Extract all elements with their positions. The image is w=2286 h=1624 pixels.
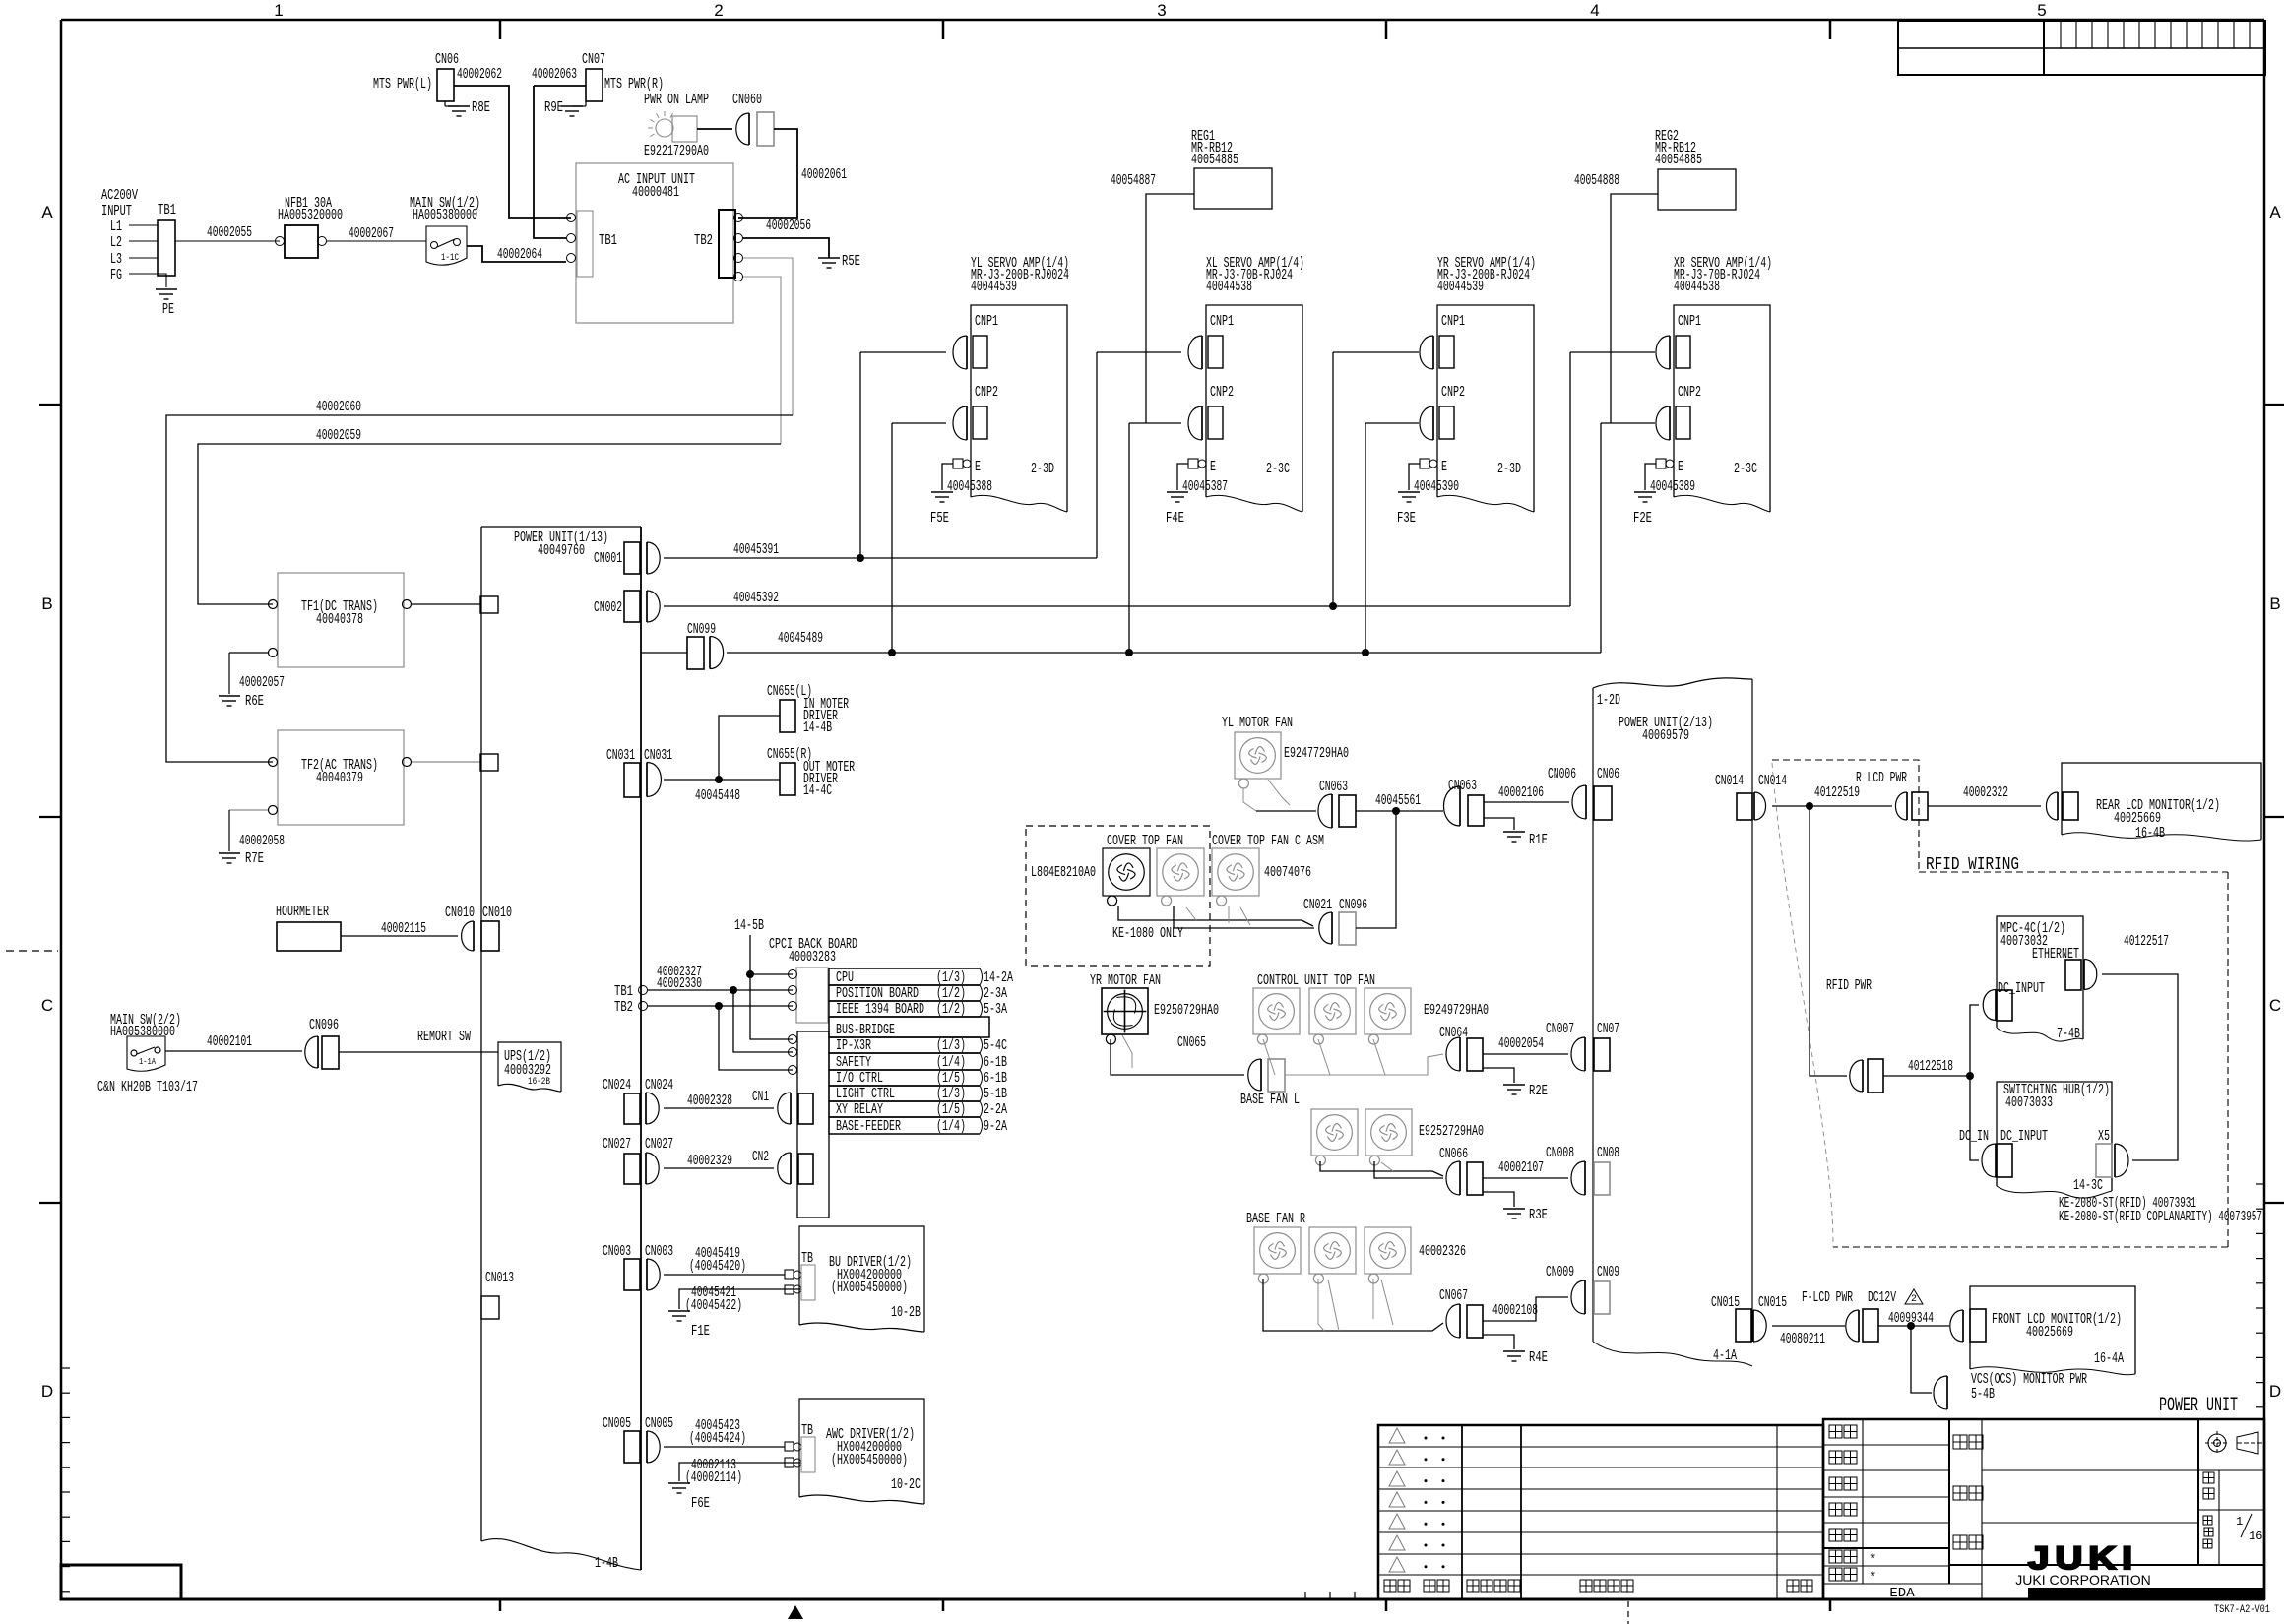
svg-text:A: A xyxy=(41,203,53,221)
svg-text:TSK7-A2-V01: TSK7-A2-V01 xyxy=(2214,1604,2270,1616)
svg-text:40045390: 40045390 xyxy=(1414,478,1459,495)
svg-text:MTS PWR(L): MTS PWR(L) xyxy=(373,76,432,93)
svg-text:CN001: CN001 xyxy=(594,550,622,567)
svg-text:FG: FG xyxy=(110,267,122,283)
svg-text:16-4B: 16-4B xyxy=(2135,825,2165,842)
svg-text:TB2: TB2 xyxy=(614,999,633,1016)
svg-text:R LCD PWR: R LCD PWR xyxy=(1856,770,1907,786)
svg-text:40002061: 40002061 xyxy=(801,166,847,183)
svg-text:D: D xyxy=(41,1382,53,1401)
svg-text:40122519: 40122519 xyxy=(1814,784,1860,801)
svg-text:SAFETY: SAFETY xyxy=(836,1054,871,1071)
svg-text:TB: TB xyxy=(801,1250,813,1267)
svg-text:CN1: CN1 xyxy=(752,1089,769,1105)
svg-text:5-4B: 5-4B xyxy=(1971,1386,1995,1403)
svg-text:40040378: 40040378 xyxy=(316,611,363,628)
svg-text:4-1A: 4-1A xyxy=(1713,1347,1737,1364)
svg-text:2-3C: 2-3C xyxy=(1266,461,1290,477)
svg-text:TB1: TB1 xyxy=(158,202,176,219)
svg-text:CN021: CN021 xyxy=(1303,897,1332,913)
svg-text:(1/3): (1/3) xyxy=(936,1086,966,1102)
svg-text:CN063: CN063 xyxy=(1448,778,1477,794)
svg-text:16-4A: 16-4A xyxy=(2094,1350,2124,1367)
svg-text:POSITION BOARD: POSITION BOARD xyxy=(836,985,919,1002)
svg-text:2: 2 xyxy=(1911,1294,1917,1305)
svg-text:INPUT: INPUT xyxy=(101,203,132,219)
svg-text:40002062: 40002062 xyxy=(457,66,502,83)
svg-text:2-3C: 2-3C xyxy=(1734,461,1757,477)
svg-text:L1: L1 xyxy=(110,219,122,235)
svg-text:L2: L2 xyxy=(110,234,122,251)
svg-text:5-4C: 5-4C xyxy=(984,1037,1007,1054)
svg-text:IEEE 1394 BOARD: IEEE 1394 BOARD xyxy=(836,1001,924,1018)
svg-text:CNP1: CNP1 xyxy=(1678,313,1701,330)
svg-text:40045489: 40045489 xyxy=(778,630,823,647)
svg-text:E9249729HA0: E9249729HA0 xyxy=(1424,1002,1489,1019)
svg-text:(40045424): (40045424) xyxy=(689,1430,746,1447)
svg-text:CN008: CN008 xyxy=(1546,1145,1574,1161)
svg-text:(1/2): (1/2) xyxy=(936,985,966,1002)
svg-text:40045387: 40045387 xyxy=(1182,478,1228,495)
svg-text:IP-X3R: IP-X3R xyxy=(836,1037,871,1054)
svg-text:F1E: F1E xyxy=(691,1323,710,1340)
svg-text:PE: PE xyxy=(162,301,174,318)
svg-text:2-3D: 2-3D xyxy=(1497,461,1521,477)
svg-text:POWER UNIT: POWER UNIT xyxy=(2159,1395,2238,1417)
svg-text:JUKI CORPORATION: JUKI CORPORATION xyxy=(2015,1572,2150,1588)
svg-text:(40045420): (40045420) xyxy=(689,1258,746,1275)
svg-text:BASE FAN R: BASE FAN R xyxy=(1246,1211,1305,1227)
svg-text:TB2: TB2 xyxy=(694,232,713,249)
svg-text:40002108: 40002108 xyxy=(1492,1302,1538,1319)
svg-text:40045448: 40045448 xyxy=(695,787,740,804)
svg-text:B: B xyxy=(41,594,52,613)
svg-text:E: E xyxy=(975,459,981,475)
svg-text:CNP1: CNP1 xyxy=(1441,313,1465,330)
svg-text:9-2A: 9-2A xyxy=(984,1118,1007,1135)
svg-text:KE-1080 ONLY: KE-1080 ONLY xyxy=(1112,925,1183,942)
svg-text:DC_INPUT: DC_INPUT xyxy=(2000,1128,2048,1145)
svg-text:40044538: 40044538 xyxy=(1206,279,1252,295)
svg-text:CN006: CN006 xyxy=(1548,766,1576,782)
svg-text:C: C xyxy=(41,996,53,1015)
svg-text:16: 16 xyxy=(2249,1530,2262,1543)
svg-text:(1/5): (1/5) xyxy=(936,1101,966,1118)
svg-text:B: B xyxy=(2269,594,2280,613)
svg-text:40002106: 40002106 xyxy=(1498,784,1544,801)
svg-text:40002067: 40002067 xyxy=(349,225,394,242)
svg-text:DC12V: DC12V xyxy=(1868,1289,1896,1306)
svg-text:CN005: CN005 xyxy=(603,1415,631,1432)
svg-text:2-3A: 2-3A xyxy=(984,985,1007,1002)
svg-text:JUKI: JUKI xyxy=(2028,1540,2138,1576)
svg-text:CN067: CN067 xyxy=(1439,1287,1468,1304)
svg-text:R5E: R5E xyxy=(842,253,860,270)
svg-text:CN2: CN2 xyxy=(752,1149,769,1165)
svg-text:40002328: 40002328 xyxy=(687,1093,732,1109)
svg-text:BASE FAN L: BASE FAN L xyxy=(1240,1092,1300,1108)
svg-text:CN031: CN031 xyxy=(644,747,672,764)
svg-text:14-4B: 14-4B xyxy=(803,719,832,736)
svg-text:(1/3): (1/3) xyxy=(936,969,966,986)
svg-text:C&N KH20B T103/17: C&N KH20B T103/17 xyxy=(97,1079,198,1095)
svg-text:DC_INPUT: DC_INPUT xyxy=(1998,980,2045,997)
svg-text:14-3C: 14-3C xyxy=(2073,1177,2103,1194)
svg-text:CN07: CN07 xyxy=(1597,1021,1619,1037)
svg-text:40002063: 40002063 xyxy=(532,66,577,83)
svg-text:R1E: R1E xyxy=(1529,832,1548,848)
svg-text:6-1B: 6-1B xyxy=(984,1070,1007,1087)
svg-text:DC_IN: DC_IN xyxy=(1959,1128,1989,1145)
svg-text:HA005320000: HA005320000 xyxy=(278,207,343,223)
svg-text:R3E: R3E xyxy=(1529,1207,1548,1223)
svg-text:KE-2080-ST(RFID COPLANARITY) 4: KE-2080-ST(RFID COPLANARITY) 40073957 xyxy=(2059,1209,2262,1225)
svg-text:CONTROL UNIT TOP FAN: CONTROL UNIT TOP FAN xyxy=(1257,972,1375,989)
svg-text:(1/4): (1/4) xyxy=(936,1054,966,1071)
svg-text:(1/4): (1/4) xyxy=(936,1118,966,1135)
svg-text:5-1B: 5-1B xyxy=(984,1086,1007,1102)
svg-text:40002107: 40002107 xyxy=(1498,1159,1544,1176)
svg-text:CN024: CN024 xyxy=(603,1077,631,1093)
svg-text:BASE-FEEDER: BASE-FEEDER xyxy=(836,1118,901,1135)
svg-text:1-1C: 1-1C xyxy=(441,253,459,264)
svg-text:40080211: 40080211 xyxy=(1780,1331,1825,1347)
svg-text:2-3D: 2-3D xyxy=(1031,461,1054,477)
svg-text:40122518: 40122518 xyxy=(1908,1058,1953,1075)
svg-text:E: E xyxy=(1210,459,1216,475)
svg-text:REMORT SW: REMORT SW xyxy=(417,1029,471,1045)
svg-text:40054888: 40054888 xyxy=(1574,172,1619,189)
svg-text:F6E: F6E xyxy=(691,1495,710,1512)
svg-text:40002064: 40002064 xyxy=(497,246,542,263)
svg-text:TB: TB xyxy=(801,1422,813,1439)
svg-text:40002101: 40002101 xyxy=(207,1033,252,1050)
svg-text:RFID PWR: RFID PWR xyxy=(1826,977,1872,994)
svg-text:40044539: 40044539 xyxy=(1437,279,1484,295)
svg-text:40002060: 40002060 xyxy=(316,399,361,415)
svg-text:CN060: CN060 xyxy=(732,92,762,108)
svg-text:CN066: CN066 xyxy=(1439,1146,1468,1162)
svg-text:5: 5 xyxy=(2037,1,2046,20)
svg-text:L804E8210A0: L804E8210A0 xyxy=(1031,864,1096,881)
svg-text:40045392: 40045392 xyxy=(733,590,779,606)
svg-text:40054885: 40054885 xyxy=(1655,152,1702,168)
svg-text:40069579: 40069579 xyxy=(1642,727,1689,744)
svg-text:CN007: CN007 xyxy=(1546,1021,1574,1037)
svg-text:CN014: CN014 xyxy=(1715,773,1744,789)
svg-text:40003283: 40003283 xyxy=(789,949,836,966)
svg-text:CN005: CN005 xyxy=(645,1415,673,1432)
svg-text:1-4B: 1-4B xyxy=(595,1555,618,1572)
svg-text:E9247729HA0: E9247729HA0 xyxy=(1284,745,1349,762)
svg-text:CN06: CN06 xyxy=(1597,766,1619,782)
svg-text:E: E xyxy=(1678,459,1683,475)
svg-text:E92217290A0: E92217290A0 xyxy=(644,143,709,159)
svg-text:40002058: 40002058 xyxy=(239,833,285,849)
svg-text:R4E: R4E xyxy=(1529,1349,1548,1366)
svg-text:CN010: CN010 xyxy=(482,905,512,921)
svg-text:(1/5): (1/5) xyxy=(936,1070,966,1087)
svg-text:CN06: CN06 xyxy=(435,51,459,68)
svg-text:CN010: CN010 xyxy=(445,905,475,921)
svg-text:HA005380000: HA005380000 xyxy=(413,207,477,223)
svg-text:RFID WIRING: RFID WIRING xyxy=(1926,855,2019,875)
svg-text:CN09: CN09 xyxy=(1597,1264,1619,1280)
svg-text:CN099: CN099 xyxy=(687,621,716,638)
svg-text:5-3A: 5-3A xyxy=(984,1001,1007,1018)
svg-text:CNP1: CNP1 xyxy=(975,313,998,330)
svg-text:D: D xyxy=(2269,1382,2281,1401)
svg-text:40049760: 40049760 xyxy=(538,542,585,559)
svg-text:2-2A: 2-2A xyxy=(984,1101,1007,1118)
svg-text:E9252729HA0: E9252729HA0 xyxy=(1419,1123,1484,1140)
svg-text:(HX005450000): (HX005450000) xyxy=(831,1280,908,1296)
svg-text:CN063: CN063 xyxy=(1319,779,1348,795)
svg-text:CN003: CN003 xyxy=(645,1243,673,1260)
svg-text:R7E: R7E xyxy=(245,850,264,867)
svg-text:L3: L3 xyxy=(110,251,122,268)
svg-text:(HX005450000): (HX005450000) xyxy=(831,1452,908,1468)
svg-text:CN08: CN08 xyxy=(1597,1145,1619,1161)
svg-text:PWR ON LAMP: PWR ON LAMP xyxy=(644,92,709,108)
svg-text:(40002114): (40002114) xyxy=(685,1469,742,1486)
svg-text:CNP2: CNP2 xyxy=(1678,384,1701,401)
svg-text:10-2C: 10-2C xyxy=(891,1476,921,1493)
svg-text:(1/3): (1/3) xyxy=(936,1037,966,1054)
svg-text:LIGHT CTRL: LIGHT CTRL xyxy=(836,1086,895,1102)
svg-text:A: A xyxy=(2269,203,2281,221)
svg-text:10-2B: 10-2B xyxy=(891,1304,921,1321)
svg-text:CN015: CN015 xyxy=(1758,1294,1787,1311)
svg-text:X5: X5 xyxy=(2098,1128,2110,1145)
svg-text:40002055: 40002055 xyxy=(207,224,252,241)
svg-text:F4E: F4E xyxy=(1166,510,1184,527)
svg-text:14-4C: 14-4C xyxy=(803,782,832,799)
svg-text:CN096: CN096 xyxy=(1339,897,1367,913)
svg-text:1-2D: 1-2D xyxy=(1597,692,1620,709)
svg-text:CNP2: CNP2 xyxy=(975,384,998,401)
svg-text:HOURMETER: HOURMETER xyxy=(276,904,329,920)
svg-text:CN07: CN07 xyxy=(582,51,605,68)
svg-text:40002059: 40002059 xyxy=(316,427,361,444)
svg-text:CNP1: CNP1 xyxy=(1210,313,1234,330)
svg-text:CN096: CN096 xyxy=(309,1017,339,1033)
svg-text:AC200V: AC200V xyxy=(101,187,138,204)
svg-text:14-2A: 14-2A xyxy=(984,969,1013,986)
svg-text:CNP2: CNP2 xyxy=(1210,384,1234,401)
svg-text:TB1: TB1 xyxy=(614,983,633,1000)
svg-text:CN002: CN002 xyxy=(594,599,622,616)
svg-text:CN031: CN031 xyxy=(606,747,635,764)
svg-text:40002056: 40002056 xyxy=(766,218,811,234)
svg-text:R8E: R8E xyxy=(472,99,490,116)
svg-text:40044539: 40044539 xyxy=(971,279,1017,295)
svg-text:40054887: 40054887 xyxy=(1111,172,1156,189)
svg-text:COVER TOP FAN C ASM: COVER TOP FAN C ASM xyxy=(1212,833,1324,849)
svg-text:F5E: F5E xyxy=(930,510,949,527)
svg-text:TB1: TB1 xyxy=(599,232,617,249)
svg-text:40000481: 40000481 xyxy=(632,184,679,201)
svg-text:40002322: 40002322 xyxy=(1963,784,2008,801)
svg-text:F-LCD PWR: F-LCD PWR xyxy=(1802,1289,1853,1306)
svg-text:40002057: 40002057 xyxy=(239,674,285,691)
svg-text:C: C xyxy=(2269,996,2281,1015)
svg-text:40045391: 40045391 xyxy=(733,541,779,558)
svg-text:40002054: 40002054 xyxy=(1498,1035,1544,1052)
svg-text:CNP2: CNP2 xyxy=(1441,384,1465,401)
svg-text:(40045422): (40045422) xyxy=(685,1297,742,1314)
svg-text:I/O CTRL: I/O CTRL xyxy=(836,1070,883,1087)
svg-text:40040379: 40040379 xyxy=(316,770,363,786)
svg-text:40025669: 40025669 xyxy=(2026,1324,2073,1341)
svg-text:R2E: R2E xyxy=(1529,1083,1548,1099)
svg-text:MTS PWR(R): MTS PWR(R) xyxy=(604,76,664,93)
svg-text:40002326: 40002326 xyxy=(1419,1243,1466,1260)
svg-text:40122517: 40122517 xyxy=(2124,933,2169,950)
svg-text:2: 2 xyxy=(714,1,723,20)
svg-text:40045389: 40045389 xyxy=(1650,478,1695,495)
svg-text:6-1B: 6-1B xyxy=(984,1054,1007,1071)
svg-text:CN014: CN014 xyxy=(1758,773,1787,789)
svg-text:YR MOTOR FAN: YR MOTOR FAN xyxy=(1090,972,1161,989)
svg-text:E: E xyxy=(1441,459,1447,475)
svg-text:BUS-BRIDGE: BUS-BRIDGE xyxy=(836,1022,895,1038)
svg-text:*: * xyxy=(1869,1570,1876,1586)
svg-text:CN024: CN024 xyxy=(645,1077,673,1093)
svg-text:40074076: 40074076 xyxy=(1264,864,1311,881)
svg-text:40045561: 40045561 xyxy=(1375,792,1421,809)
svg-text:XY RELAY: XY RELAY xyxy=(836,1101,883,1118)
svg-text:(1/2): (1/2) xyxy=(936,1001,966,1018)
svg-text:COVER TOP FAN: COVER TOP FAN xyxy=(1107,833,1183,849)
svg-text:40002115: 40002115 xyxy=(381,920,426,937)
svg-text:40073033: 40073033 xyxy=(2005,1094,2053,1111)
svg-text:R6E: R6E xyxy=(245,693,264,710)
svg-text:7-4B: 7-4B xyxy=(2057,1026,2080,1042)
svg-text:EDA: EDA xyxy=(1889,1586,1915,1601)
svg-text:CN009: CN009 xyxy=(1546,1264,1574,1280)
svg-text:16-2B: 16-2B xyxy=(528,1077,550,1088)
svg-text:F2E: F2E xyxy=(1633,510,1652,527)
svg-text:4: 4 xyxy=(1590,1,1599,20)
svg-text:40045388: 40045388 xyxy=(947,478,992,495)
svg-text:CN065: CN065 xyxy=(1177,1034,1206,1051)
svg-text:YL MOTOR FAN: YL MOTOR FAN xyxy=(1222,715,1293,731)
svg-text:E9250729HA0: E9250729HA0 xyxy=(1154,1002,1219,1019)
svg-text:*: * xyxy=(1869,1552,1876,1568)
svg-text:1-1A: 1-1A xyxy=(139,1057,156,1067)
svg-text:40044538: 40044538 xyxy=(1674,279,1720,295)
svg-text:CPU: CPU xyxy=(836,969,854,986)
svg-text:CN013: CN013 xyxy=(485,1270,514,1286)
svg-text:CN027: CN027 xyxy=(645,1136,673,1153)
svg-text:1: 1 xyxy=(2236,1515,2243,1529)
svg-text:CN027: CN027 xyxy=(603,1136,631,1153)
svg-text:F3E: F3E xyxy=(1397,510,1416,527)
svg-text:CN003: CN003 xyxy=(603,1243,631,1260)
svg-text:R9E: R9E xyxy=(544,99,563,116)
svg-text:1: 1 xyxy=(274,1,283,20)
svg-text:3: 3 xyxy=(1157,1,1166,20)
svg-text:40002329: 40002329 xyxy=(687,1153,732,1169)
svg-text:40054885: 40054885 xyxy=(1191,152,1238,168)
svg-text:14-5B: 14-5B xyxy=(734,917,764,934)
